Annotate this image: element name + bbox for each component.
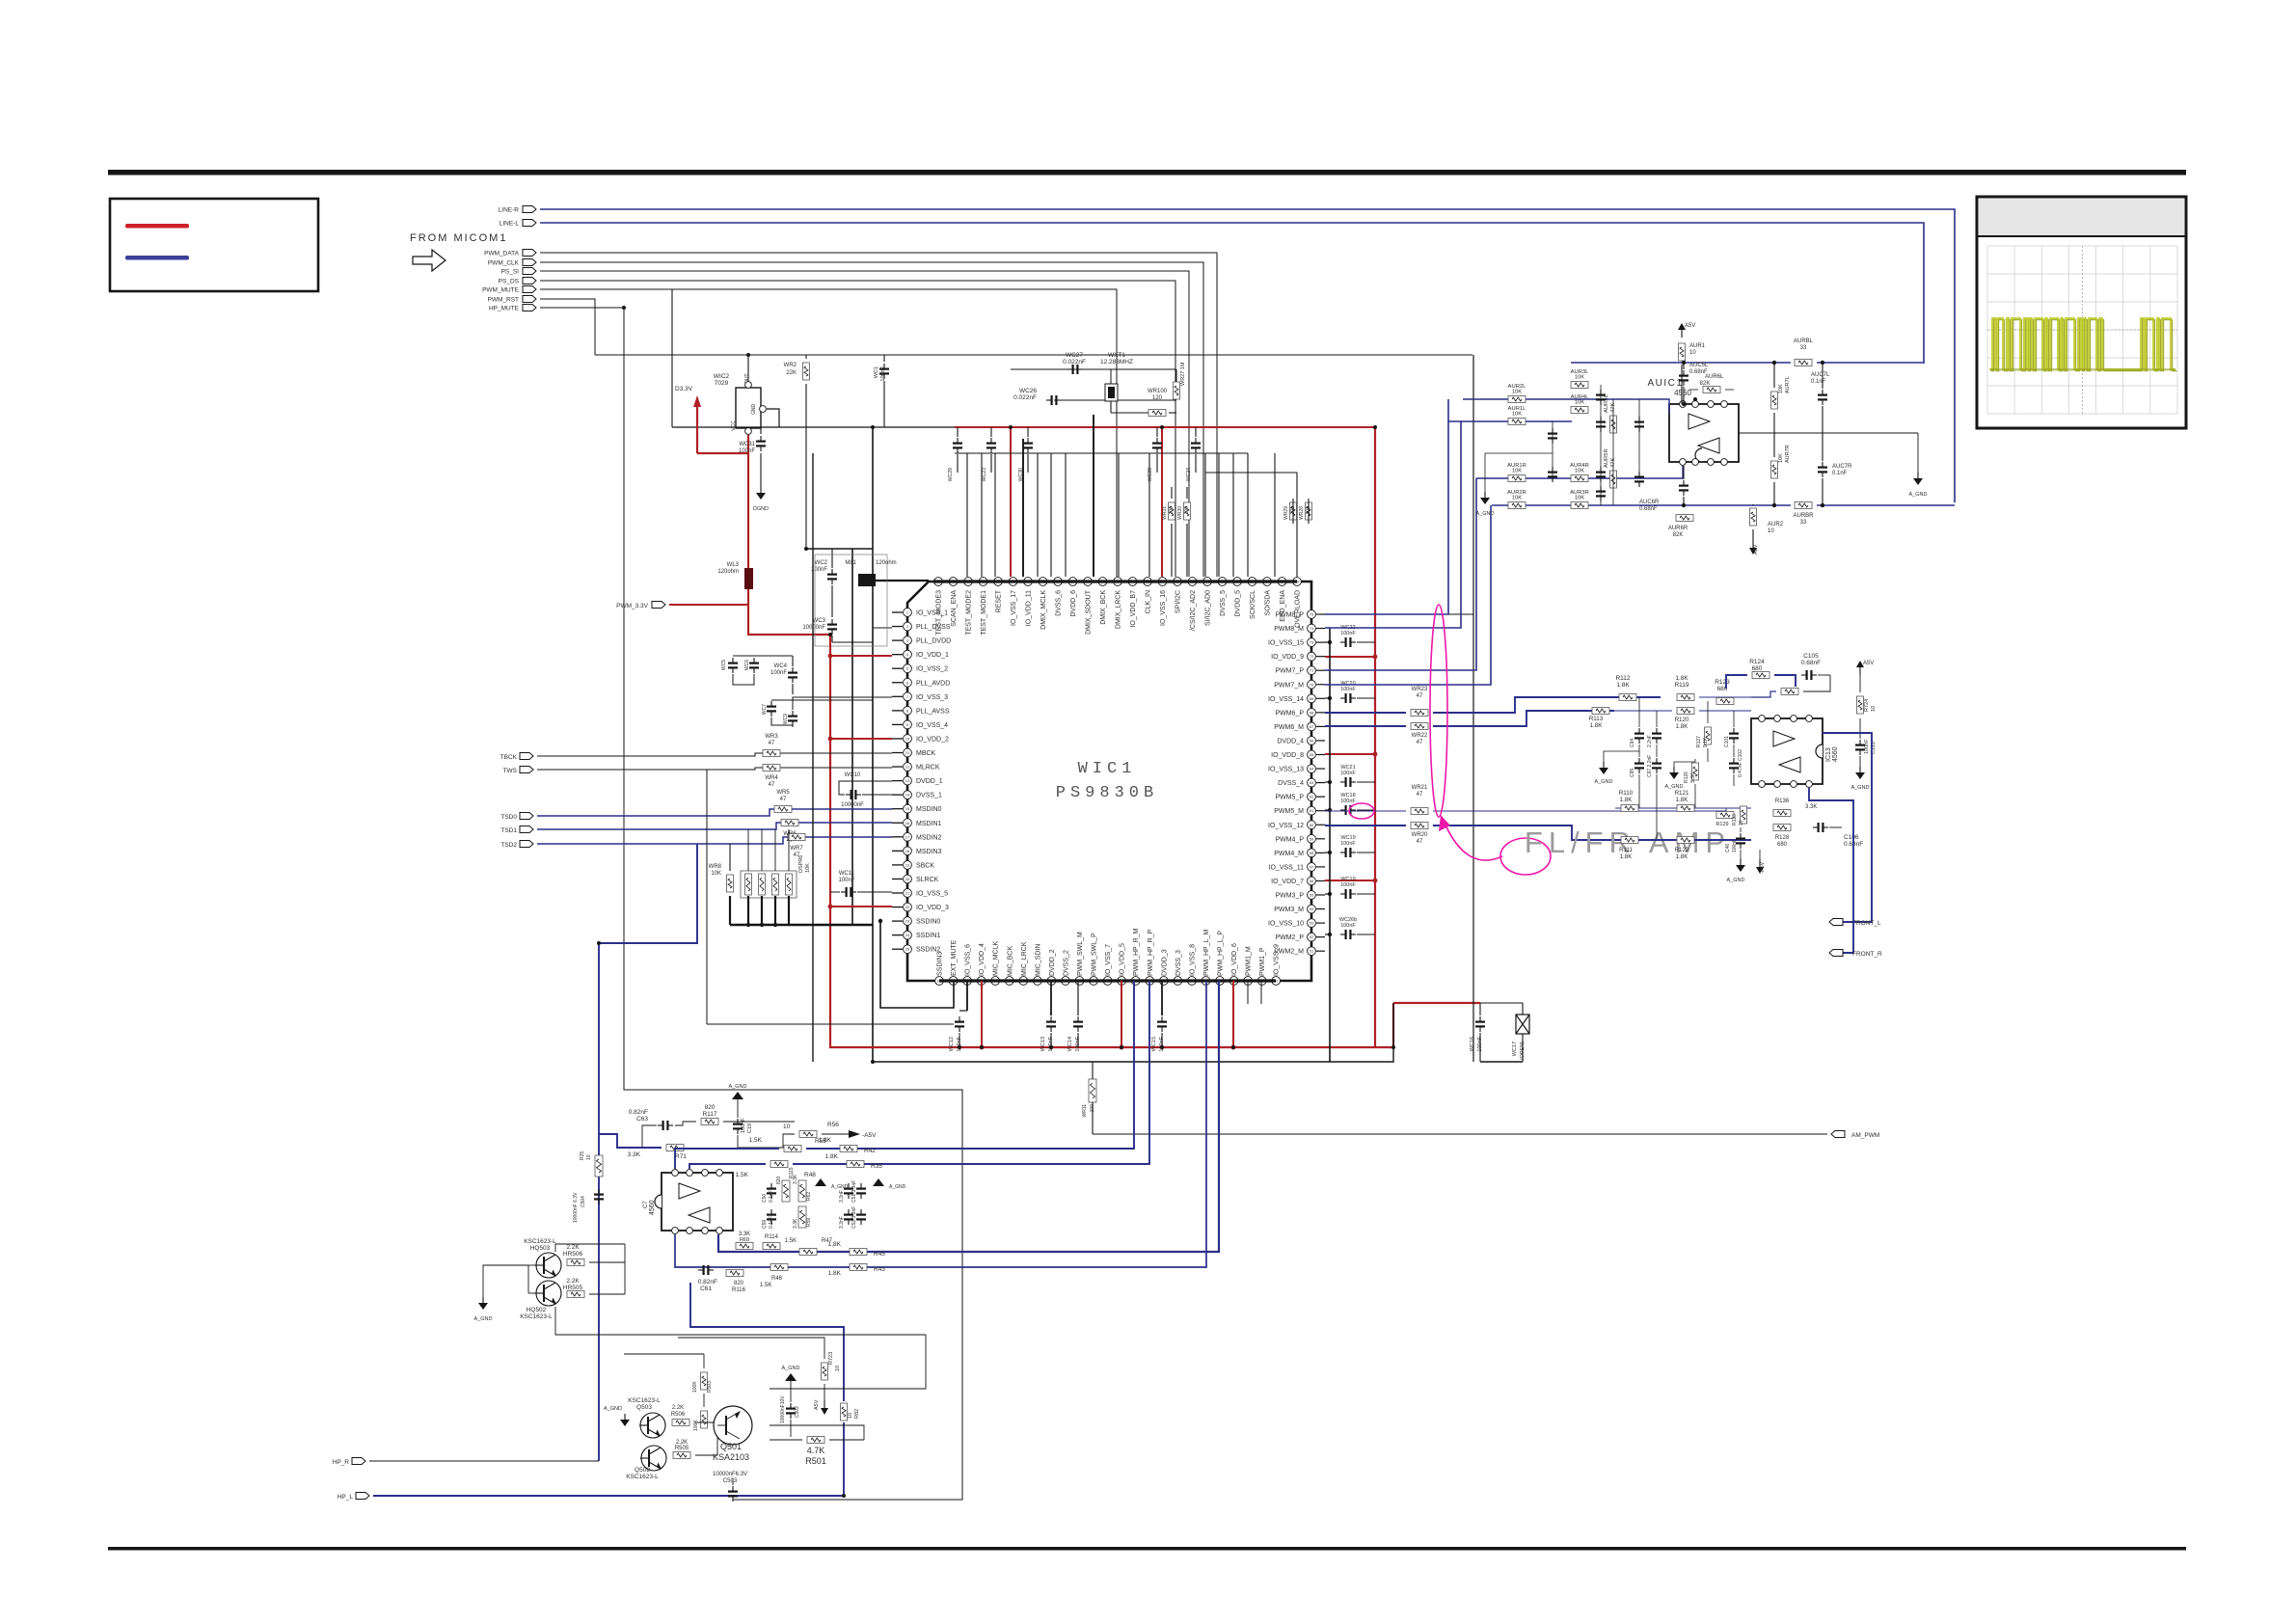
resistor WR22 47: [1411, 723, 1428, 730]
svg-text:-A5V: -A5V: [1760, 861, 1766, 874]
arrow A5V r723: [824, 1400, 825, 1408]
red stub pin56 IO_VDD_7: [1325, 880, 1375, 881]
page bottom rule: [108, 1547, 2186, 1551]
svg-text:WC4: WC4: [774, 663, 788, 669]
resistor AUR2 10 with A5V down: [1750, 508, 1757, 526]
svg-text:DVSS_6: DVSS_6: [1056, 590, 1063, 616]
svg-text:12: 12: [905, 765, 910, 770]
black vertical x905: [872, 427, 874, 1062]
svg-text:R46: R46: [771, 1276, 783, 1282]
pin IC13 bottom: [1791, 781, 1797, 788]
opamp U13A triangle: [1773, 731, 1795, 746]
resistor R506 2.2K: [672, 1420, 689, 1426]
wire WC3 to pin2: [832, 628, 892, 642]
black wire to R723: [678, 1338, 824, 1359]
red stub bottom IO_VDD_4: [981, 981, 983, 1047]
svg-text:0.1nF: 0.1nF: [769, 1216, 774, 1229]
svg-text:10K: 10K: [1575, 400, 1584, 406]
svg-text:KSA2103: KSA2103: [713, 1452, 749, 1462]
pin AUIC1 bottom: [1721, 459, 1728, 466]
svg-text:WC10: WC10: [845, 772, 861, 778]
svg-text:DVSS_1: DVSS_1: [916, 793, 942, 799]
svg-text:4560: 4560: [1674, 389, 1691, 397]
blue rail y414: [1463, 399, 1669, 414]
resistor WR4 47: [763, 765, 780, 771]
resistor WR11 100: [1089, 1079, 1096, 1102]
pin HIC top: [716, 1170, 723, 1177]
svg-text:D3.3V: D3.3V: [675, 386, 693, 392]
black rail below chip y1101: [873, 1003, 1393, 1062]
feedback resistor R125: [1781, 689, 1798, 695]
oscilloscope baseline noise: [1990, 368, 2175, 371]
svg-text:MIC_SDIN: MIC_SDIN: [1035, 944, 1041, 976]
svg-text:IO_VDD_4: IO_VDD_4: [979, 943, 986, 976]
caps C94 C98 2.2nF: [1638, 728, 1640, 733]
svg-text:R35: R35: [871, 1163, 882, 1170]
wire PWM_3.3V red: [669, 604, 748, 606]
svg-text:R59: R59: [806, 1218, 812, 1227]
svg-text:55: 55: [1310, 893, 1314, 898]
svg-text:3.3K: 3.3K: [1805, 804, 1817, 810]
svg-text:(OPEN): (OPEN): [1520, 1042, 1526, 1060]
connector FRONT_R: [1829, 950, 1843, 957]
svg-text:25: 25: [905, 947, 910, 952]
svg-text:C51 3.3nF: C51 3.3nF: [851, 1180, 857, 1203]
svg-text:MIC_LRCK: MIC_LRCK: [1021, 941, 1028, 976]
svg-text:IO_VSS_5: IO_VSS_5: [916, 891, 948, 898]
svg-text:WC14: WC14: [1067, 1037, 1073, 1051]
wire PWM5_P blue thin: [1325, 810, 1406, 812]
pin 76 OVERLOAD: [1293, 578, 1302, 586]
svg-text:AUC5L: AUC5L: [1689, 363, 1709, 368]
svg-text:PWM3_P: PWM3_P: [1275, 893, 1304, 900]
pin 89 DMIX_BCK: [1098, 578, 1107, 586]
wire AUIC1 inner verticals: [1600, 385, 1602, 505]
capacitor WC31 100nF: [760, 427, 762, 434]
pin 47 IO_VDD_6: [1229, 977, 1238, 986]
wires lower cluster: [703, 1354, 705, 1368]
resistor R127 9.1K: [1705, 727, 1712, 744]
svg-text:10K: 10K: [1575, 375, 1584, 381]
svg-text:IO_VSS_14: IO_VSS_14: [1268, 696, 1304, 703]
wire transistor bases: [528, 1264, 535, 1266]
resistor R723 10: [822, 1363, 828, 1380]
svg-text:C106: C106: [1844, 834, 1859, 841]
wire TSD0 blue: [520, 813, 533, 820]
black vertical x884: [851, 549, 853, 925]
svg-text:AUC6R: AUC6R: [1639, 500, 1660, 505]
pin 1 IO_VSS_1: [892, 611, 903, 613]
svg-text:R62: R62: [806, 1192, 812, 1201]
resistor AUR7L 10K: [1771, 392, 1778, 409]
capacitor C46 100nF: [1740, 833, 1742, 838]
pin 71 PWM7_P: [1308, 666, 1316, 675]
resistor R505 2.2K: [673, 1452, 690, 1459]
svg-text:820: 820: [734, 1281, 744, 1286]
svg-text:10000nF6.3V: 10000nF6.3V: [713, 1472, 747, 1477]
svg-text:10K: 10K: [1778, 384, 1784, 393]
svg-text:R122: R122: [1675, 847, 1689, 853]
ground rail y959: [730, 924, 873, 926]
pin 25 SSDIN2: [892, 948, 903, 950]
pin 32 MIC_LRCK: [1019, 977, 1028, 986]
capacitor WC14 100nF: [1077, 1016, 1079, 1021]
pin HIC bottom: [716, 1228, 723, 1234]
svg-text:0.1nF: 0.1nF: [1811, 379, 1826, 385]
svg-text:72: 72: [1310, 654, 1314, 659]
bus vertical x1134 thick: [1093, 415, 1094, 577]
resistor WR31 100: [1169, 502, 1175, 520]
svg-text:DVSS_3: DVSS_3: [1175, 950, 1182, 976]
pin 19 SBCK: [892, 864, 903, 866]
capacitor AUC6R 0.68nF: [1683, 480, 1685, 485]
svg-text:WC26: WC26: [1019, 388, 1037, 394]
svg-text:22K: 22K: [786, 370, 797, 376]
resistor AUR1 10 with A5V: [1681, 330, 1683, 338]
svg-text:R116: R116: [732, 1287, 746, 1293]
svg-text:PWM_3.3V: PWM_3.3V: [616, 603, 649, 609]
bus verticals above chip: [966, 453, 968, 577]
pin 45 PWM_HP_L_M: [1202, 977, 1210, 986]
svg-text:0.47nF C102: 0.47nF C102: [1738, 749, 1743, 777]
magenta circle pin62: [1349, 803, 1374, 819]
svg-text:IO_VSS_11: IO_VSS_11: [1269, 864, 1305, 871]
resistor WR30 100: [1184, 502, 1191, 520]
resistor AUR1R 10K: [1508, 475, 1526, 482]
svg-text:PS_DS: PS_DS: [499, 279, 520, 285]
svg-text:0.022nF: 0.022nF: [1013, 394, 1037, 401]
pin AUIC1 top: [1692, 401, 1699, 408]
pin 14 DVSS_1: [892, 794, 903, 796]
svg-text:47: 47: [769, 782, 775, 788]
connector AM_PWM: [1831, 1131, 1845, 1138]
svg-text:100: 100: [1090, 1104, 1095, 1113]
svg-text:HP_MUTE: HP_MUTE: [489, 306, 520, 312]
legend red sample line: [125, 224, 189, 229]
svg-text:21: 21: [905, 891, 910, 896]
svg-text:120: 120: [1152, 395, 1163, 401]
pin HIC top: [672, 1170, 679, 1177]
ground A_GND c19: [732, 1092, 743, 1099]
capacitor AUC7R 0.1nF: [1822, 462, 1823, 467]
svg-text:54: 54: [1310, 907, 1314, 911]
svg-text:C101: C101: [1724, 736, 1730, 747]
pin 44 IO_VSS_8: [1188, 977, 1197, 986]
svg-text:AUC7L: AUC7L: [1811, 372, 1830, 378]
resistor AUR6R 82K: [1676, 515, 1693, 522]
svg-text:A_GND: A_GND: [604, 1406, 622, 1412]
blue row y838 R110 R121: [1615, 807, 1751, 809]
capacitor WC23 100nF: [990, 438, 992, 443]
capacitor AUC2R 0.1nF: [1600, 467, 1602, 472]
svg-text:Q503: Q503: [636, 1404, 652, 1411]
svg-text:69: 69: [1310, 696, 1314, 701]
svg-text:A_GND: A_GND: [782, 1366, 800, 1371]
hp filter caps row1: [770, 1183, 772, 1188]
wire R71 blue elbow: [599, 1134, 642, 1148]
arrow -A5V: [1759, 859, 1761, 867]
blue row y1314: [675, 981, 1206, 1267]
pin 3 PLL_DVDD: [892, 639, 903, 641]
svg-text:WR11: WR11: [1082, 1104, 1088, 1118]
junction dots misc: [746, 353, 750, 357]
svg-text:65: 65: [1310, 752, 1314, 757]
capacitor WC12 100nF: [959, 1016, 960, 1021]
svg-text:R120: R120: [1675, 717, 1689, 723]
svg-text:AM_PWM: AM_PWM: [1851, 1132, 1879, 1139]
resistor R124 680 top: [1752, 672, 1769, 679]
resistor R724 10: [1857, 696, 1864, 714]
resistor AUR2L 10K: [1508, 396, 1526, 403]
wire LINE-R: [540, 209, 1955, 502]
svg-text:IO_VDD_9: IO_VDD_9: [1271, 654, 1304, 661]
svg-text:PWM2_P: PWM2_P: [1275, 934, 1304, 941]
pin 77 EPD_ENA: [1278, 578, 1286, 586]
wire PWM1 stubs: [1247, 981, 1249, 1004]
resistor WR29 100: [1290, 502, 1297, 520]
svg-text:SPI/I2C: SPI/I2C: [1175, 590, 1182, 613]
R133 and R136 cluster: [1741, 806, 1747, 824]
pin 29 IO_VDD_4: [977, 977, 986, 986]
svg-text:AUR6R: AUR6R: [1668, 526, 1688, 531]
connector FRONT_L: [1829, 919, 1843, 926]
pin 33 MIC_SDIN: [1033, 977, 1041, 986]
svg-text:IO_VSS_3: IO_VSS_3: [916, 694, 948, 701]
capacitor WC5 100nF: [732, 658, 734, 663]
wires cap column: [1638, 697, 1640, 727]
resistor R121 1.8K: [1677, 805, 1694, 812]
A_GND r126: [1674, 762, 1695, 767]
svg-text:MLRCK: MLRCK: [916, 765, 940, 771]
svg-text:10K: 10K: [1512, 412, 1522, 418]
svg-text:47: 47: [1417, 792, 1423, 798]
svg-text:WR20: WR20: [1412, 832, 1428, 838]
svg-text:VCC: VCC: [731, 420, 737, 431]
svg-text:HR505: HR505: [563, 1285, 583, 1291]
svg-text:100nF: 100nF: [957, 1036, 962, 1051]
svg-text:R723: R723: [828, 1352, 834, 1365]
black vertical x733: [706, 770, 708, 1024]
resistor HR506 2.2K: [567, 1259, 584, 1266]
svg-text:C97 2.2nF: C97 2.2nF: [1647, 755, 1653, 777]
pin 50 IO_VSS_9: [1272, 977, 1281, 986]
resistor R111 1.8K: [1621, 837, 1638, 844]
svg-text:MSDIN3: MSDIN3: [916, 849, 942, 855]
svg-text:100nF: 100nF: [770, 670, 787, 676]
pin 46 PWM_HP_L_P: [1216, 977, 1225, 986]
resistor R48 1.5K: [770, 1161, 788, 1168]
svg-text:A5V: A5V: [1685, 323, 1695, 329]
wire PWM6_M blue: [1325, 725, 1406, 727]
pin 78 SO/SDA: [1263, 578, 1272, 586]
wire HP_L blue: [356, 1493, 369, 1500]
bus vertical x1061 thick: [1022, 439, 1024, 577]
svg-text:SO/SDA: SO/SDA: [1265, 590, 1272, 616]
svg-text:C19: C19: [747, 1123, 753, 1133]
svg-text:DVSS_4: DVSS_4: [1278, 780, 1304, 787]
resistor R117 820: [701, 1119, 718, 1125]
svg-text:10K: 10K: [805, 863, 811, 873]
svg-text:R48: R48: [804, 1172, 816, 1178]
pin 52 PWM2_P: [1308, 933, 1316, 941]
wire regulator gnd: [767, 409, 779, 427]
pin 21 IO_VSS_5: [892, 892, 903, 894]
pin IC13 top: [1759, 716, 1766, 722]
svg-text:100nF: 100nF: [1864, 739, 1870, 754]
svg-text:WIC1: WIC1: [1078, 760, 1137, 778]
hp filter caps row2: [770, 1209, 772, 1214]
svg-text:R724: R724: [1864, 699, 1870, 712]
svg-text:71: 71: [1310, 668, 1314, 673]
red stub bottom IO_VDD_5: [1121, 981, 1122, 1047]
pin 7 IO_VSS_3: [892, 695, 903, 697]
right side AUC7 cluster: [1739, 432, 1918, 434]
wire PS_DS: [540, 281, 1175, 577]
svg-text:10000nF10V: 10000nF10V: [780, 1395, 786, 1423]
connector PWM_DATA: [523, 250, 536, 257]
wire PWM8_M blue: [1325, 421, 1461, 628]
svg-text:DVDD_3: DVDD_3: [1161, 949, 1168, 976]
pin HIC bottom: [672, 1228, 679, 1234]
magenta small ellipse: [1500, 838, 1551, 875]
resistor R35 1.8K: [847, 1161, 864, 1168]
svg-text:IO_VDD_8: IO_VDD_8: [1271, 752, 1304, 759]
capacitor AUC4L 0.47nF: [1638, 417, 1640, 421]
svg-text:WC27: WC27: [1066, 352, 1083, 359]
svg-text:0.022nF: 0.022nF: [1063, 359, 1086, 365]
crystal cluster wires: [1011, 368, 1075, 370]
ground A_GND auic left: [1484, 492, 1486, 498]
resistor R114 820: [763, 1243, 780, 1250]
svg-text:10K: 10K: [1512, 496, 1522, 501]
svg-text:WC5: WC5: [721, 660, 727, 670]
svg-text:DVDD_2: DVDD_2: [1049, 949, 1056, 976]
svg-text:HQ503: HQ503: [530, 1245, 551, 1252]
svg-text:MIC_MCLK: MIC_MCLK: [993, 940, 1000, 976]
svg-text:EXT_MUTE: EXT_MUTE: [951, 939, 958, 976]
pin 6 PLL_AVDD: [892, 682, 903, 684]
wire PWM_RST: [540, 299, 595, 355]
svg-text:IO_VDD_2: IO_VDD_2: [916, 736, 949, 743]
wire EXT_MUTE elbow: [880, 921, 954, 1008]
svg-text:10000nF 6.3V: 10000nF 6.3V: [573, 1192, 579, 1223]
svg-text:A5V: A5V: [814, 1399, 820, 1410]
svg-text:WC6: WC6: [744, 660, 750, 670]
svg-text:22: 22: [905, 905, 910, 909]
svg-text:33: 33: [1800, 520, 1807, 526]
svg-text:PWM1_P: PWM1_P: [1259, 947, 1266, 976]
svg-text:IO_VSS_8: IO_VSS_8: [1189, 944, 1196, 976]
pin 55 PWM3_P: [1308, 891, 1316, 900]
resistor R82 10 on HP_L riser: [843, 1422, 845, 1496]
pin 90 DMIX_SDOUT: [1084, 578, 1093, 586]
resistor R129 680: [1716, 812, 1734, 819]
svg-text:12.288MHZ: 12.288MHZ: [1100, 359, 1133, 365]
pin AUIC1 top: [1680, 401, 1687, 408]
crystal WXT1 12.288MHZ: [1105, 384, 1118, 401]
svg-text:IO_VSS_6: IO_VSS_6: [965, 944, 972, 976]
resistor AUR5R 47K: [1610, 471, 1617, 488]
resistor R501 4.7K: [807, 1437, 824, 1444]
svg-text:61: 61: [1310, 808, 1314, 813]
resistor WR5 47: [774, 806, 792, 813]
resistor R71 3.3K: [666, 1145, 684, 1151]
svg-text:KSC1623-L: KSC1623-L: [628, 1397, 661, 1404]
pin 99 SCAN_ENA: [949, 578, 958, 586]
svg-text:R42: R42: [864, 1148, 876, 1154]
resistor R126 3.3K: [1692, 763, 1699, 780]
pin 60 IO_VSS_12: [1308, 821, 1316, 829]
resistor AUR3L 10K: [1571, 382, 1588, 389]
pin 94 IO_VDD_11: [1024, 578, 1033, 586]
blue row y1298: [718, 981, 1219, 1252]
svg-text:PWM4_P: PWM4_P: [1275, 836, 1304, 843]
pin 62 PWM5_P: [1308, 793, 1316, 801]
svg-text:IO_VSS_4: IO_VSS_4: [916, 722, 948, 729]
svg-text:R113: R113: [1589, 716, 1604, 722]
capacitor WC27 0.022nF: [1067, 368, 1072, 370]
svg-text:1.8K: 1.8K: [819, 1137, 832, 1144]
svg-text:PWM5_P: PWM5_P: [1275, 795, 1304, 801]
pin 53 IO_VSS_10: [1308, 919, 1316, 928]
wire PWM_DATA: [540, 253, 1217, 577]
svg-text:A_GND: A_GND: [1476, 511, 1495, 517]
svg-text:Q502: Q502: [635, 1467, 650, 1474]
svg-text:3.3K: 3.3K: [628, 1151, 641, 1158]
capacitor C19 100nF: [737, 1119, 739, 1123]
svg-text:60: 60: [1310, 823, 1314, 827]
resistor WR6 47: [781, 820, 798, 826]
svg-text:TSD2: TSD2: [500, 842, 517, 849]
wire PWM7_M blue: [1325, 505, 1491, 685]
svg-text:MSDIN0: MSDIN0: [916, 806, 942, 813]
capacitor WC20 100nF right: [1325, 697, 1330, 699]
pin 51 PWM2_M: [1308, 947, 1316, 956]
svg-text:WR3: WR3: [765, 734, 778, 740]
wire FRONT_L blue: [1823, 733, 1872, 922]
svg-text:R128: R128: [1775, 835, 1790, 841]
pin 9 IO_VSS_4: [892, 723, 903, 725]
svg-text:PWM5_M: PWM5_M: [1274, 808, 1304, 815]
svg-text:C7: C7: [643, 1201, 649, 1208]
svg-text:AUR5L: AUR5L: [1604, 394, 1609, 413]
svg-text:680: 680: [1777, 842, 1788, 848]
resistor WR20 47: [1411, 823, 1428, 829]
inductor ML1 120ohm: [876, 580, 929, 582]
svg-text:1.5K: 1.5K: [736, 1172, 749, 1178]
svg-text:100nF: 100nF: [739, 448, 755, 454]
pin 12 MLRCK: [892, 766, 903, 768]
svg-text:IO_VSS_13: IO_VSS_13: [1268, 767, 1304, 773]
svg-text:82K: 82K: [1700, 381, 1711, 387]
blue row y1207: [689, 1164, 766, 1169]
svg-text:4560: 4560: [649, 1200, 656, 1215]
svg-text:10: 10: [835, 1366, 841, 1371]
svg-text:10: 10: [1871, 706, 1877, 712]
svg-text:10: 10: [586, 1154, 592, 1160]
capacitor C61 0.82nF: [698, 1269, 703, 1271]
svg-text:R56: R56: [827, 1122, 839, 1128]
caps C101 C102 0.47nF: [1733, 728, 1735, 733]
wire PWM5_M blue: [1325, 825, 1406, 826]
svg-text:100nF: 100nF: [741, 1118, 746, 1133]
ground A_GND right: [1917, 433, 1919, 473]
svg-text:ML1: ML1: [845, 560, 856, 566]
svg-text:1.8K: 1.8K: [1676, 853, 1689, 860]
pin 66 DVDD_4: [1308, 737, 1316, 745]
capacitor WC18 100nF right: [1325, 809, 1330, 811]
svg-text:WR30: WR30: [1177, 506, 1183, 520]
